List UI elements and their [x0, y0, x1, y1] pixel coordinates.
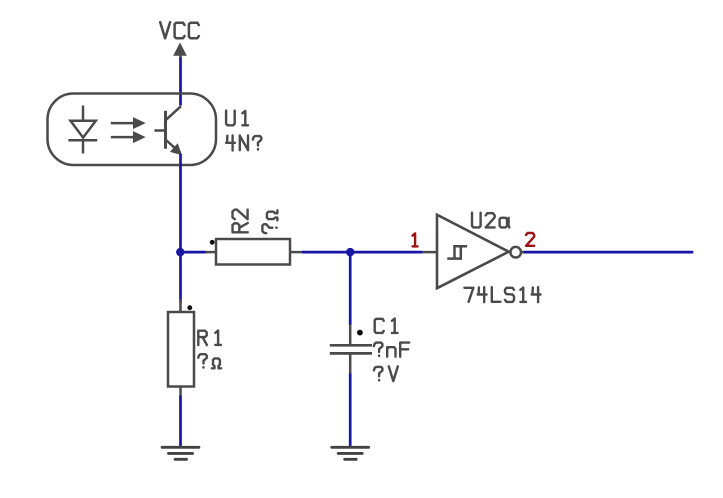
value ?nF — [374, 343, 409, 357]
pin 1 label — [413, 233, 418, 246]
wire node B down to C1 — [349, 252, 352, 325]
label U1 — [226, 111, 248, 126]
label R1 — [198, 331, 221, 346]
wire node A to R2 — [180, 251, 206, 254]
wire R2 to U2a input (through node B) — [302, 251, 423, 254]
U1 phototransistor — [155, 106, 182, 154]
U2a output stub — [521, 251, 524, 254]
pin 2 label — [526, 233, 534, 246]
power symbol VCC arrow — [174, 44, 186, 59]
value ?&#937; (R2) — [262, 211, 277, 234]
wire U1 emitter to R1 (node A) — [179, 154, 182, 303]
hysteresis symbol — [447, 246, 467, 258]
value 4N? — [226, 136, 261, 151]
label VCC — [160, 22, 199, 38]
label R2 — [233, 210, 248, 233]
junction node A — [176, 248, 184, 256]
R1 origin dot — [187, 305, 192, 310]
wire R1 to ground — [179, 396, 182, 448]
resistor R2 — [206, 239, 303, 265]
ground (R1) — [162, 447, 199, 459]
value 74LS14 — [464, 287, 540, 302]
inverter U2a — [423, 215, 509, 289]
value ?V — [374, 366, 398, 381]
optocoupler U1 body — [48, 94, 217, 166]
output bubble — [510, 247, 521, 258]
R2 origin dot — [210, 240, 215, 245]
junction node B — [346, 248, 354, 256]
wire C1 to ground — [349, 374, 352, 448]
value ?&#937; (R1) — [198, 354, 221, 368]
U1 coupling arrows — [111, 118, 145, 142]
label C1 — [375, 319, 398, 333]
U1 LED — [68, 106, 97, 154]
C1 origin dot — [357, 330, 363, 336]
wire VCC to U1 collector — [179, 58, 182, 106]
wire U2a output — [524, 251, 694, 254]
capacitor C1 — [330, 325, 372, 375]
resistor R1 — [168, 299, 194, 396]
ground (C1) — [332, 447, 369, 459]
label U2a — [472, 213, 509, 228]
